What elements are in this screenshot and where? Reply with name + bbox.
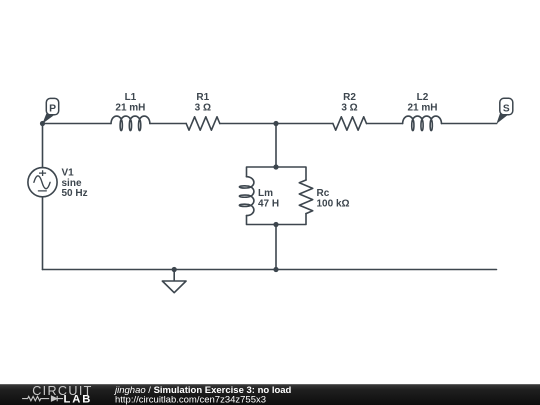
node P marker	[43, 98, 58, 122]
svg-text:R1: R1	[196, 92, 209, 103]
wire bottom bus	[43, 269, 497, 271]
wire parallel group frame	[247, 167, 307, 225]
inductor L1	[111, 116, 150, 131]
svg-text:3 Ω: 3 Ω	[341, 102, 357, 113]
svg-text:100 kΩ: 100 kΩ	[317, 199, 350, 210]
node parallel-top junction dot	[273, 164, 278, 169]
node ground junction dot	[172, 267, 177, 272]
node top-middle junction dot	[273, 121, 278, 126]
svg-text:21 mH: 21 mH	[115, 102, 145, 113]
wire middle branch bottom	[275, 225, 277, 270]
svg-text:R2: R2	[343, 92, 356, 103]
wire top bus	[43, 123, 497, 125]
node bottom-middle junction dot	[273, 267, 278, 272]
source V1	[28, 168, 57, 197]
svg-text:LAB: LAB	[64, 394, 93, 405]
svg-text:sine: sine	[62, 178, 82, 189]
svg-text:L2: L2	[417, 92, 429, 103]
resistor Rc	[299, 180, 312, 214]
svg-text:3 Ω: 3 Ω	[195, 102, 211, 113]
resistor R1	[186, 117, 220, 130]
footer bar	[0, 384, 540, 405]
svg-text:http://circuitlab.com/cen7z34z: http://circuitlab.com/cen7z34z755x3	[115, 394, 266, 405]
node S marker	[497, 98, 513, 122]
svg-text:Lm: Lm	[258, 188, 273, 199]
svg-text:Rc: Rc	[317, 188, 330, 199]
node P junction dot	[40, 121, 45, 126]
logo squiggle resistor-diode	[22, 396, 63, 401]
svg-text:L1: L1	[125, 92, 137, 103]
svg-text:21 mH: 21 mH	[407, 102, 437, 113]
svg-text:S: S	[503, 103, 510, 114]
ground	[162, 270, 186, 293]
svg-text:50 Hz: 50 Hz	[62, 188, 88, 199]
wire left vertical	[42, 124, 44, 270]
svg-text:V1: V1	[62, 167, 75, 178]
inductor L2	[403, 116, 442, 131]
svg-text:47 H: 47 H	[258, 199, 279, 210]
svg-text:P: P	[49, 104, 56, 115]
resistor R2	[333, 117, 367, 130]
node parallel-bottom junction dot	[273, 222, 278, 227]
wire middle branch top	[275, 124, 277, 168]
inductor Lm	[239, 177, 254, 216]
